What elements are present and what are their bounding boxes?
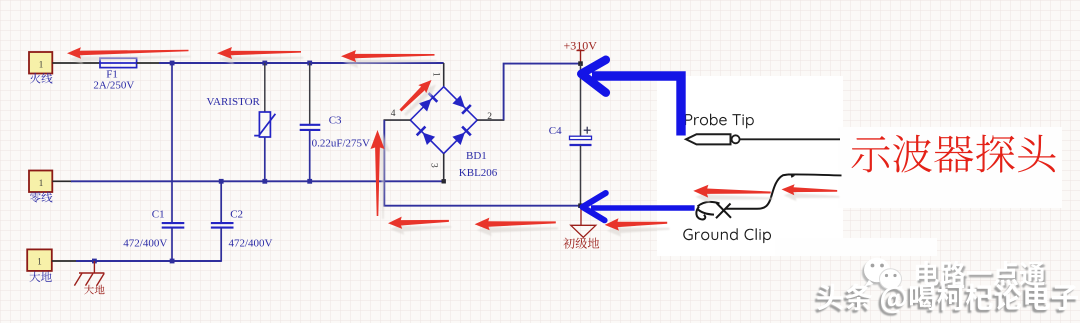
junction live/varistor [262,61,267,66]
junction +310V node [578,61,583,66]
blue arrow to primary ground (ground clip connection) [583,193,695,220]
svg-text:VARISTOR: VARISTOR [207,96,261,108]
bridge pin2 stub [477,119,504,121]
red arrow C (live rail mid) [341,50,435,62]
red arrow F (ground rail 1) shadow [390,223,451,235]
bridge BD1 diamond [410,87,477,154]
white strip behind red caption [838,127,1062,208]
watermark 电路一点通 [916,261,1047,288]
junction primary-ground node [578,203,583,208]
svg-text:C1: C1 [152,208,165,220]
junction neutral/varistor [262,179,267,184]
svg-text:0.22uF/275V: 0.22uF/275V [312,137,370,149]
label 初级地 [563,238,599,249]
red arrow D (into bridge) shadow [404,85,436,117]
svg-text:KBL206: KBL206 [459,167,498,179]
svg-text:4: 4 [391,109,396,119]
red arrow J (at probe cable) shadow [784,190,840,201]
ground clip label [683,228,771,243]
probe tip label [685,114,754,129]
capacitor C2 plates [211,223,234,228]
red arrow B (live rail left) [217,47,301,59]
bridge pin4 stub [384,119,411,121]
blue arrow to +310V (probe tip connection) [581,60,681,136]
red arrow F (ground rail 1) [388,217,449,229]
capacitor C2 wire from neutral [220,181,222,222]
wire neutral rail [71,180,444,182]
capacitor C1 wire from live [171,63,173,223]
C4 polarity + [584,127,591,134]
label 火线 [30,73,52,84]
svg-text:1: 1 [37,257,42,267]
ground clip drawing [696,174,841,219]
junction live/C1 [170,61,175,66]
wire C2 to earth rail [220,228,222,262]
caption 示波器探头 [852,135,1056,173]
red arrow E (up at C3) [371,130,385,216]
red arrow E (up at C3) shadow [376,133,390,219]
probe photo white panel [657,76,843,256]
bridge diode upper-left [419,99,432,112]
wire earth rail [76,260,221,262]
capacitor C4 wire lower [580,146,582,206]
wire earth: box stub [52,260,77,262]
varistor stub (live to body) [264,63,266,112]
varistor RV body [254,112,275,137]
fuse F1 [100,58,137,67]
svg-text:BD1: BD1 [466,150,487,162]
junction neutral/C2 [219,179,224,184]
port 大地 (earth) box [27,249,52,271]
red arrow C (live rail mid) shadow [343,56,437,68]
red arrow H (ground rail 3) [605,218,668,230]
wire live: fuse to junction [137,62,160,64]
svg-text:1: 1 [39,178,44,188]
red arrow D (into bridge) [400,80,432,112]
power +310V [577,51,585,64]
wire neutral: box stub [52,180,72,182]
label 大地 (port) [30,272,52,283]
capacitor C4 wire upper [580,64,582,136]
wire C3 to neutral [309,131,311,182]
red arrow H (ground rail 3) shadow [607,224,670,236]
svg-text:472/400V: 472/400V [229,238,273,250]
probe tip drawing [686,134,840,144]
junction earth/C1 [170,259,175,264]
junction neutral/bridge pin3 [442,179,446,183]
red arrow B (live rail left) shadow [219,53,303,65]
svg-text:472/400V: 472/400V [123,238,167,250]
watermark 头条@喝柯杞论电子 [815,284,1078,316]
wire bridge pin2 to +310V node [504,64,581,121]
svg-text:2: 2 [487,112,492,122]
wire live rail [159,62,444,64]
red arrow G (ground rail 2) [475,218,556,231]
wire live: box to fuse [52,62,100,64]
svg-text:1: 1 [431,72,441,77]
svg-text:3: 3 [429,163,439,168]
red arrow I (at ground clip) [693,185,770,198]
wire bridge pin4 to primary-ground rail [384,120,581,206]
bridge diode upper-right [452,95,465,108]
bridge diode lower-right [452,133,465,146]
wire C1 to earth rail [171,228,173,261]
red arrow I (at ground clip) shadow [696,191,773,204]
svg-text:C4: C4 [549,125,562,137]
port 火线 (live) box [29,52,52,74]
capacitor C3 plates [300,125,321,130]
earth ground symbol [74,261,104,286]
svg-text:C3: C3 [329,114,342,126]
svg-text:C2: C2 [230,208,243,220]
primary ground symbol [571,208,596,237]
label 零线 [30,192,52,203]
wire live to bridge pin1 [443,63,445,87]
ground clip hook dot [791,175,796,178]
capacitor C1 plates [162,223,185,228]
svg-text:1: 1 [39,59,44,69]
red arrow A (to live port) shadow [69,53,191,65]
white strip behind watermark [775,238,937,256]
watermark wechat icon [862,258,903,296]
junction live/C3 [307,61,312,66]
bridge diode lower-left [423,133,436,146]
label 大地 (earth symbol) [84,285,105,295]
junction earth/ground-symbol [92,259,97,264]
red arrow A (to live port) [67,47,189,59]
red arrow J (at probe cable) [782,184,838,195]
red arrow G (ground rail 2) shadow [477,224,558,237]
port 零线 (neutral) box [29,171,52,193]
junction neutral/C3 [307,179,312,184]
capacitor C3 stub [309,63,311,124]
capacitor C4 plates [570,136,592,139]
svg-text:+310V: +310V [564,39,598,53]
bridge pin3 stub [443,154,445,182]
wire varistor to neutral [264,137,266,181]
svg-text:2A/250V: 2A/250V [93,79,134,91]
